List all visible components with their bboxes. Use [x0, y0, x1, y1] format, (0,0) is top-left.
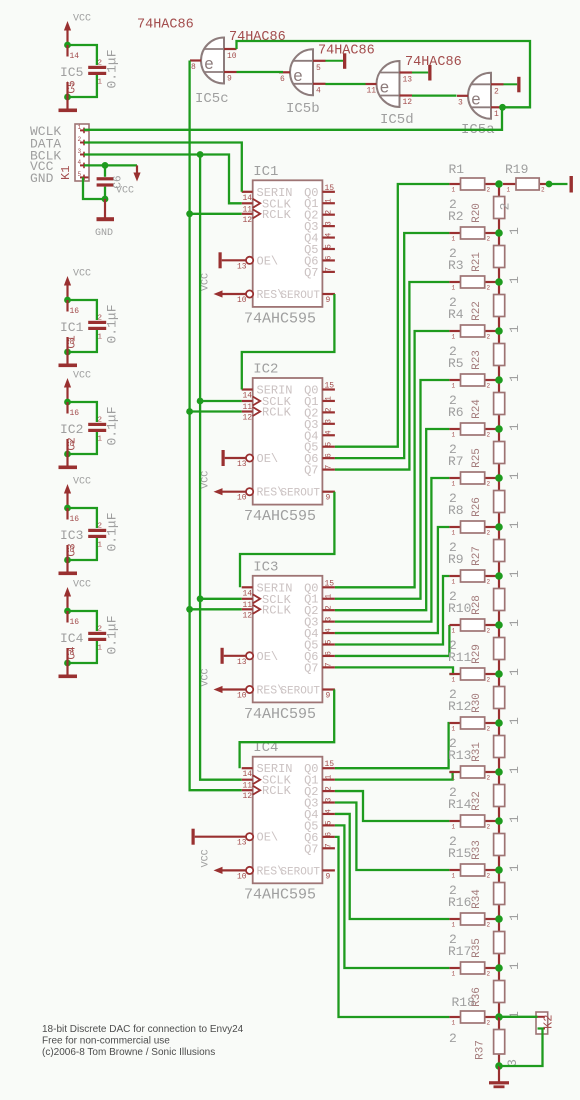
svg-text:R5: R5	[448, 356, 464, 371]
svg-text:R11: R11	[448, 650, 472, 665]
wire BCLK net	[84, 151, 242, 203]
resistor R8 (2R)	[448, 491, 499, 537]
svg-text:16: 16	[70, 409, 80, 418]
svg-text:1: 1	[452, 677, 456, 684]
svg-text:2: 2	[487, 628, 491, 635]
svg-text:SEROUT: SEROUT	[280, 686, 320, 698]
svg-text:VCC: VCC	[201, 273, 212, 291]
svg-text:6: 6	[325, 651, 334, 656]
svg-text:2: 2	[449, 1031, 457, 1046]
svg-text:2: 2	[487, 579, 491, 586]
svg-text:1: 1	[452, 285, 456, 292]
shift register IC1 74AHC595	[201, 164, 335, 327]
wire bit 12 (Q output to R12)	[335, 723, 450, 768]
wire bit 6 (Q output to R6)	[335, 429, 450, 610]
svg-text:1: 1	[98, 334, 103, 342]
note text block	[42, 1024, 244, 1058]
svg-text:1: 1	[494, 110, 499, 119]
svg-text:1: 1	[452, 971, 456, 978]
svg-text:SEROUT: SEROUT	[280, 488, 320, 500]
svg-text:7: 7	[325, 267, 334, 272]
svg-text:R29: R29	[471, 644, 483, 664]
svg-text:1: 1	[78, 124, 82, 131]
resistor R30 (series rung)	[471, 674, 522, 725]
svg-text:R20: R20	[471, 203, 483, 223]
svg-text:RCLK: RCLK	[262, 603, 292, 617]
svg-text:SEROUT: SEROUT	[280, 290, 320, 302]
wire bit 17 (Q output to R17)	[335, 825, 450, 968]
svg-text:2: 2	[487, 971, 491, 978]
svg-text:1: 1	[452, 628, 456, 635]
wire bit 3 (Q output to R3)	[335, 282, 450, 470]
resistor R15 (2R)	[448, 834, 499, 880]
svg-text:13: 13	[237, 262, 247, 271]
svg-text:VCC: VCC	[73, 269, 91, 280]
resistor R7 (2R)	[448, 442, 499, 488]
ground symbol (IC3 GND)	[59, 560, 78, 575]
ground symbol (K1 GND)	[95, 199, 114, 239]
svg-text:IC5c: IC5c	[195, 91, 229, 107]
svg-text:1: 1	[98, 79, 103, 87]
svg-text:R14: R14	[448, 797, 472, 812]
junction node row 8	[495, 523, 503, 531]
pin stubs IC3 power pins 16/8	[60, 508, 83, 560]
svg-text:GND: GND	[95, 228, 113, 239]
svg-text:1: 1	[98, 436, 103, 444]
resistor R5 (2R)	[448, 344, 499, 390]
junction node row 6	[495, 425, 503, 433]
svg-text:R23: R23	[471, 350, 483, 370]
svg-text:R15: R15	[448, 846, 471, 861]
resistor R37 (terminator)	[475, 1017, 521, 1067]
svg-text:1: 1	[452, 824, 456, 831]
svg-text:8: 8	[70, 338, 75, 347]
wire SCLK chain net	[197, 155, 242, 780]
svg-text:16: 16	[70, 618, 80, 627]
svg-text:2: 2	[487, 677, 491, 684]
wire bit 14 (Q output to R14)	[335, 791, 450, 821]
XOR gate IC5b 74HAC86	[279, 49, 326, 117]
svg-text:1: 1	[452, 530, 456, 537]
wire R19 output to terminal	[546, 181, 568, 188]
svg-text:7: 7	[325, 662, 334, 667]
svg-text:2: 2	[98, 315, 103, 323]
svg-text:4: 4	[316, 86, 321, 95]
wire IC5d out to IC5a	[412, 94, 457, 96]
terminal bar (output)	[570, 176, 573, 193]
svg-text:2: 2	[487, 236, 491, 243]
pin stubs IC4 power pins 16/8	[60, 611, 84, 663]
svg-text:1: 1	[507, 962, 522, 970]
svg-text:2: 2	[78, 136, 82, 143]
svg-text:4: 4	[325, 430, 334, 435]
svg-text:12: 12	[243, 216, 253, 225]
svg-text:1: 1	[507, 325, 522, 333]
wire ladder top node to K2 pin1	[499, 1016, 538, 1018]
svg-text:R19: R19	[505, 162, 528, 177]
svg-text:2: 2	[487, 922, 491, 929]
capacitor C4 0.1uF	[67, 615, 120, 659]
svg-text:10: 10	[237, 494, 247, 503]
svg-text:4: 4	[325, 232, 334, 237]
svg-text:R33: R33	[471, 840, 483, 860]
svg-text:RCLK: RCLK	[262, 208, 292, 222]
shift register IC4 74AHC595	[192, 740, 335, 904]
svg-text:IC3: IC3	[253, 559, 278, 575]
svg-text:6: 6	[325, 255, 334, 260]
svg-text:Q7: Q7	[304, 464, 318, 478]
wire WCLK net	[84, 107, 502, 130]
wire VCC loop to cap C1	[64, 297, 97, 356]
svg-text:R26: R26	[471, 497, 483, 517]
svg-text:e: e	[204, 55, 214, 74]
resistor R25 (series rung)	[471, 429, 522, 480]
wire bit 4 (Q output to R4)	[335, 331, 450, 587]
svg-text:R17: R17	[448, 944, 471, 959]
XOR gate IC5c 74HAC86	[190, 38, 237, 108]
svg-text:2: 2	[98, 60, 103, 68]
resistor R14 (2R)	[448, 785, 499, 831]
svg-text:VCC: VCC	[201, 849, 212, 867]
svg-text:2: 2	[325, 407, 334, 412]
svg-text:2: 2	[98, 626, 103, 634]
svg-text:1: 1	[452, 383, 456, 390]
junction node row 1	[495, 180, 503, 188]
svg-text:2: 2	[487, 824, 491, 831]
wire bit 1 (Q output to R1)	[335, 184, 450, 447]
svg-text:5: 5	[325, 442, 334, 447]
svg-text:3: 3	[325, 797, 334, 802]
svg-text:2: 2	[487, 873, 491, 880]
wire bit 2 (Q output to R2)	[335, 233, 450, 458]
wire VCC loop to cap C3	[64, 505, 97, 564]
svg-text:R27: R27	[471, 546, 483, 566]
svg-text:R1: R1	[449, 162, 465, 177]
svg-text:12: 12	[243, 792, 253, 801]
svg-text:1: 1	[507, 668, 522, 676]
svg-text:5: 5	[325, 639, 334, 644]
svg-text:e: e	[471, 90, 481, 109]
resistor R18 (2R)	[449, 995, 499, 1046]
ground symbol (IC2 GND)	[59, 454, 78, 469]
svg-text:1: 1	[452, 432, 456, 439]
svg-text:2: 2	[487, 383, 491, 390]
resistor R13 (2R)	[448, 736, 499, 782]
svg-text:13: 13	[237, 839, 247, 848]
svg-text:R37: R37	[475, 1040, 487, 1060]
resistor R3 (2R)	[448, 246, 499, 292]
wire bit 10 (Q output to R10)	[335, 625, 450, 656]
resistor R12 (2R)	[448, 687, 499, 733]
svg-text:8: 8	[70, 440, 75, 449]
svg-text:74HAC86: 74HAC86	[137, 18, 194, 33]
svg-text:2: 2	[487, 481, 491, 488]
svg-text:5: 5	[78, 171, 82, 178]
resistor R20 (series rung)	[471, 184, 522, 235]
svg-text:R9: R9	[448, 552, 464, 567]
svg-text:8: 8	[191, 63, 196, 72]
svg-text:IC2: IC2	[253, 362, 278, 378]
svg-text:15: 15	[325, 382, 335, 391]
svg-text:R2: R2	[448, 209, 464, 224]
gate input tie bar	[325, 53, 346, 69]
svg-text:2: 2	[487, 726, 491, 733]
svg-text:14: 14	[243, 194, 253, 203]
svg-text:R12: R12	[448, 699, 471, 714]
svg-text:12: 12	[243, 611, 253, 620]
svg-text:9: 9	[326, 494, 331, 503]
svg-text:1: 1	[325, 594, 334, 599]
svg-text:6: 6	[325, 453, 334, 458]
svg-text:RCLK: RCLK	[262, 406, 292, 420]
svg-text:16: 16	[70, 307, 80, 316]
svg-text:R3: R3	[448, 258, 464, 273]
junction node row 3	[495, 278, 503, 286]
svg-text:GND: GND	[30, 171, 54, 186]
svg-text:0.1μF: 0.1μF	[105, 304, 120, 343]
svg-text:0.1μF: 0.1μF	[105, 49, 120, 88]
gate input tie bar	[504, 77, 521, 93]
junction node row 10	[495, 621, 503, 629]
capacitor C2 0.1uF	[67, 406, 120, 450]
svg-text:2: 2	[487, 775, 491, 782]
wire IC5c out to IC5b	[237, 71, 284, 73]
svg-text:R13: R13	[448, 748, 471, 763]
resistor R1 (2R)	[449, 162, 499, 194]
wire bit 13 (Q output to R13)	[335, 772, 453, 780]
svg-text:2: 2	[487, 1020, 491, 1027]
svg-text:12: 12	[403, 98, 413, 107]
resistor R21 (series rung)	[471, 233, 522, 284]
resistor R19	[503, 162, 549, 194]
wire IC1 SEROUT to IC2 SERIN	[242, 294, 335, 390]
svg-text:1: 1	[507, 570, 522, 578]
wire K1 VCC to C6 and VCC symbol	[84, 162, 137, 202]
shift register IC3 74AHC595	[201, 559, 335, 723]
resistor R23 (series rung)	[471, 331, 522, 382]
wire RCLK chain net (from IC5c output)	[186, 61, 241, 791]
junction node row 9	[495, 572, 503, 580]
supply VCC arrow (down, K1)	[116, 165, 141, 196]
wire bit 18 (Q output to R18)	[335, 837, 450, 1017]
svg-text:1: 1	[452, 481, 456, 488]
svg-text:8: 8	[70, 649, 75, 658]
wire top rail IC5c pin10 to IC5a pin1	[237, 41, 531, 111]
pin stubs IC2 power pins 16/8	[60, 402, 83, 454]
svg-text:1: 1	[98, 645, 103, 653]
junction node row 15	[495, 866, 503, 874]
svg-text:74HAC86: 74HAC86	[318, 44, 375, 59]
XOR gate IC5a 74HAC86	[457, 73, 504, 138]
svg-text:1: 1	[452, 236, 456, 243]
supply VCC arrow (IC4 power)	[64, 580, 91, 612]
wire bit 8 (Q output to R8)	[335, 527, 450, 633]
svg-text:1: 1	[507, 913, 522, 921]
svg-text:1: 1	[507, 815, 522, 823]
svg-text:4: 4	[325, 809, 334, 814]
svg-text:3: 3	[325, 221, 334, 226]
svg-text:e: e	[380, 79, 390, 98]
svg-text:IC1: IC1	[253, 164, 278, 180]
resistor R29 (series rung)	[471, 625, 522, 676]
wire bit 9 (Q output to R9)	[335, 576, 450, 645]
svg-text:OE\: OE\	[257, 452, 279, 466]
resistor R4 (2R)	[448, 295, 499, 341]
svg-text:12: 12	[243, 414, 253, 423]
svg-text:14: 14	[243, 770, 253, 779]
resistor R27 (series rung)	[471, 527, 522, 578]
svg-text:1: 1	[507, 423, 522, 431]
svg-text:5: 5	[316, 64, 321, 73]
svg-text:R30: R30	[471, 693, 483, 713]
svg-text:9: 9	[326, 692, 331, 701]
svg-text:2: 2	[487, 334, 491, 341]
svg-text:2: 2	[325, 786, 334, 791]
svg-text:2: 2	[325, 605, 334, 610]
wire IC5b out to IC5d	[325, 83, 365, 85]
svg-text:7: 7	[325, 464, 334, 469]
svg-text:SEROUT: SEROUT	[280, 866, 320, 878]
svg-text:Q7: Q7	[304, 842, 318, 856]
svg-text:1: 1	[325, 396, 334, 401]
svg-text:R7: R7	[448, 454, 464, 469]
svg-text:14: 14	[243, 589, 253, 598]
svg-text:VCC: VCC	[201, 471, 212, 489]
svg-text:7: 7	[325, 843, 334, 848]
svg-text:2: 2	[98, 523, 103, 531]
XOR gate IC5d 74HAC86	[366, 61, 414, 128]
svg-text:1: 1	[507, 521, 522, 529]
svg-text:3: 3	[325, 617, 334, 622]
junction node row 17	[495, 964, 503, 972]
svg-text:VCC: VCC	[73, 371, 91, 382]
resistor R24 (series rung)	[471, 380, 522, 431]
svg-text:13: 13	[403, 76, 413, 85]
svg-text:11: 11	[367, 87, 377, 96]
svg-text:74AHC595: 74AHC595	[244, 310, 316, 327]
resistor R32 (series rung)	[471, 772, 522, 823]
svg-text:VCC: VCC	[73, 580, 91, 591]
pin stubs IC1 power pins 16/8	[60, 300, 84, 352]
resistor R31 (series rung)	[471, 723, 522, 774]
supply VCC arrow (IC2 power)	[64, 371, 91, 403]
ground symbol (ladder bottom)	[489, 1062, 509, 1088]
svg-text:IC3: IC3	[60, 528, 83, 543]
supply VCC arrow (IC1 power)	[64, 269, 91, 301]
resistor R2 (2R)	[448, 197, 499, 243]
resistor R26 (series rung)	[471, 478, 522, 529]
svg-text:7: 7	[70, 83, 75, 92]
svg-text:10: 10	[237, 872, 247, 881]
svg-text:15: 15	[325, 579, 335, 588]
svg-text:R10: R10	[448, 601, 471, 616]
svg-text:IC1: IC1	[60, 320, 84, 335]
svg-text:R25: R25	[471, 448, 483, 468]
junction node row 14	[495, 817, 503, 825]
svg-text:13: 13	[237, 460, 247, 469]
svg-text:R6: R6	[448, 405, 464, 420]
svg-text:4: 4	[325, 628, 334, 633]
junction node row 4	[495, 327, 503, 335]
resistor R11 (2R)	[448, 638, 499, 684]
svg-text:R36: R36	[471, 987, 483, 1007]
svg-text:2: 2	[541, 187, 545, 194]
svg-text:10: 10	[237, 296, 247, 305]
svg-text:10: 10	[237, 692, 247, 701]
svg-text:16: 16	[70, 515, 80, 524]
svg-text:8: 8	[70, 546, 75, 555]
wire K1 GND to C6 bottom	[83, 177, 105, 199]
ground symbol (IC5 GND)	[59, 97, 78, 112]
wire bit 16 (Q output to R16)	[335, 814, 450, 919]
svg-text:6: 6	[325, 832, 334, 837]
svg-text:1: 1	[507, 187, 511, 194]
resistor R22 (series rung)	[471, 282, 522, 333]
wire VCC loop to cap C5	[64, 42, 97, 101]
svg-text:5: 5	[325, 244, 334, 249]
capacitor C6	[97, 175, 125, 188]
svg-text:IC5: IC5	[60, 65, 83, 80]
svg-text:R4: R4	[448, 307, 464, 322]
svg-text:9: 9	[326, 872, 331, 881]
resistor R36 (series rung)	[471, 968, 522, 1019]
svg-text:1: 1	[507, 864, 522, 872]
svg-text:2: 2	[98, 417, 103, 425]
svg-text:6: 6	[280, 75, 285, 84]
resistor R9 (2R)	[448, 540, 499, 586]
svg-text:1: 1	[452, 775, 456, 782]
svg-text:1: 1	[452, 1020, 456, 1027]
resistor R17 (2R)	[448, 932, 499, 978]
svg-text:0.1μF: 0.1μF	[105, 406, 120, 445]
wire IC2 SEROUT to IC3 SERIN	[240, 492, 334, 588]
resistor R34 (series rung)	[471, 870, 522, 921]
svg-text:3: 3	[78, 148, 82, 155]
junction node row 2	[495, 229, 503, 237]
svg-text:1: 1	[325, 775, 334, 780]
svg-text:(c)2006-8 Tom Browne / Sonic I: (c)2006-8 Tom Browne / Sonic Illusions	[42, 1047, 215, 1058]
wire VCC loop to cap C4	[64, 608, 97, 667]
svg-text:2: 2	[487, 285, 491, 292]
svg-text:R21: R21	[471, 252, 483, 272]
svg-text:R31: R31	[471, 742, 483, 762]
svg-text:VCC: VCC	[73, 477, 91, 488]
svg-text:1: 1	[507, 227, 522, 235]
svg-text:VCC: VCC	[201, 668, 212, 686]
capacitor C5 0.1uF	[67, 49, 120, 93]
ground symbol (IC1 GND)	[59, 352, 78, 367]
svg-text:15: 15	[325, 184, 335, 193]
svg-text:Q7: Q7	[304, 661, 318, 675]
svg-text:2: 2	[487, 432, 491, 439]
ground symbol (IC4 GND)	[59, 663, 78, 678]
supply VCC arrow (IC5 power)	[64, 14, 91, 46]
svg-text:R28: R28	[471, 595, 483, 615]
svg-text:10: 10	[227, 52, 237, 61]
capacitor C3 0.1uF	[67, 512, 120, 556]
wire DATA net to IC1 SERIN	[84, 143, 242, 192]
svg-text:Q7: Q7	[304, 266, 318, 280]
svg-text:OE\: OE\	[257, 650, 279, 664]
svg-text:1: 1	[507, 717, 522, 725]
svg-text:1: 1	[452, 334, 456, 341]
svg-text:13: 13	[237, 658, 247, 667]
svg-text:R34: R34	[471, 889, 483, 909]
shift register IC2 74AHC595	[201, 362, 335, 526]
svg-text:C6: C6	[113, 175, 125, 188]
svg-text:1: 1	[507, 766, 522, 774]
capacitor C1 0.1uF	[67, 304, 120, 348]
